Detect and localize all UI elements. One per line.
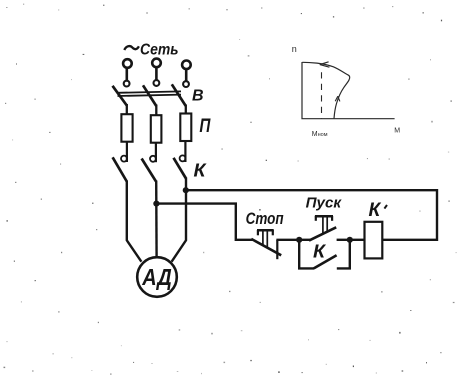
node junction phase 3 (183, 187, 189, 193)
svg-text:n: n (292, 44, 297, 54)
fuse П pole 2 (151, 115, 162, 143)
svg-text:П: П (199, 116, 210, 137)
svg-text:Стоп: Стоп (246, 209, 284, 228)
terminal L2 (152, 59, 161, 86)
node junction right of Пуск (347, 237, 353, 243)
wire phase 2 to motor (155, 181, 158, 258)
auxiliary contact K (parallel with Пуск) (299, 240, 350, 269)
wire phase 1 to motor (127, 181, 142, 262)
wire blade2 to fuse2 (155, 105, 157, 117)
node junction left of Пуск (296, 237, 302, 243)
svg-text:АД: АД (141, 264, 172, 290)
wire blade3 to fuse3 (185, 105, 187, 115)
contactor contact K pole 3 (174, 141, 187, 179)
wire top rail to coil (186, 190, 437, 240)
wire blade1 to fuse1 (126, 104, 128, 115)
terminal L3 (182, 61, 191, 87)
wire phase 3 to motor (172, 178, 186, 262)
svg-text:Мном: Мном (312, 131, 328, 138)
label net ~Сеть (124, 41, 178, 58)
switch B pole 2 blade (143, 85, 156, 106)
switch B pole 3 blade (172, 84, 186, 106)
graph axes (302, 62, 395, 119)
graph arrow head (320, 62, 330, 67)
fuse П pole 3 (180, 114, 191, 142)
fuse П pole 1 (121, 114, 132, 142)
pushbutton Пуск (NO) (299, 216, 350, 241)
switch B pole 1 blade (113, 86, 127, 106)
switch B tie bar (118, 91, 182, 96)
svg-text:Пуск: Пуск (306, 195, 343, 212)
svg-text:В: В (192, 88, 204, 105)
graph arrow on curve (335, 96, 340, 101)
svg-text:К: К (194, 160, 208, 180)
contactor contact K pole 1 (113, 142, 127, 182)
svg-text:Сеть: Сеть (140, 41, 179, 58)
graph dashed line Мном (321, 72, 323, 118)
terminal L1 (123, 59, 132, 86)
svg-text:М: М (394, 127, 400, 134)
wire Стоп to node (276, 239, 300, 241)
pushbutton Стоп (NC) (251, 230, 281, 259)
svg-text:К: К (313, 241, 327, 261)
graph curve (302, 62, 349, 118)
svg-text:К: К (369, 200, 382, 221)
contactor contact K pole 2 (142, 143, 156, 182)
motor АД (137, 257, 177, 297)
node junction phase 2 (153, 201, 159, 207)
coil K' (365, 222, 383, 259)
wire control branch from phase 2 (156, 204, 252, 240)
wire node to coil (350, 239, 365, 241)
